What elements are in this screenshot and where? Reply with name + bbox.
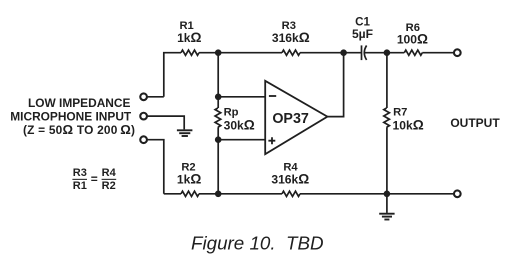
svg-text:OP37: OP37 (272, 111, 309, 127)
label Rp (224, 107, 255, 133)
wire top line left segment (164, 53, 181, 97)
fraction bar right (102, 178, 117, 180)
resistor R6 (404, 50, 422, 55)
svg-text:(Z = 50Ω TO 200 Ω): (Z = 50Ω TO 200 Ω) (23, 122, 135, 137)
wire input terminal 2 to ground (147, 116, 184, 129)
node E (R4/R7/ground/output) (384, 191, 391, 198)
svg-text:Figure 10. TBD: Figure 10. TBD (191, 233, 324, 254)
wire op-amp output to node B (327, 53, 343, 117)
label R4 (271, 161, 309, 186)
label R7 (393, 107, 424, 133)
wire inverting input (218, 96, 265, 98)
label R6 (397, 22, 428, 46)
node noninverting input junction (215, 136, 222, 143)
svg-text:30kΩ: 30kΩ (224, 117, 255, 132)
svg-text:5µF: 5µF (352, 27, 373, 41)
svg-text:R7: R7 (393, 107, 407, 119)
node A (R1/R3 junction) (215, 49, 222, 56)
svg-text:R3: R3 (73, 167, 87, 179)
capacitor C1 (362, 45, 367, 60)
svg-text:1kΩ: 1kΩ (177, 171, 201, 186)
svg-text:LOW IMPEDANCE: LOW IMPEDANCE (28, 96, 130, 110)
resistor Rp (215, 108, 221, 127)
wire noninverting input (218, 139, 265, 141)
wire R3 to C1 (300, 52, 362, 54)
resistor R3 (282, 50, 300, 55)
svg-text:316kΩ: 316kΩ (272, 30, 310, 45)
svg-text:R1: R1 (73, 180, 87, 192)
wire bottom line left segment (164, 193, 181, 195)
resistor R1 (181, 50, 199, 55)
output terminal bottom (454, 190, 461, 197)
output terminal top (454, 49, 461, 56)
resistor R7 (384, 108, 390, 127)
node inverting input junction (215, 94, 222, 101)
op-amp minus pin mark (269, 95, 276, 97)
wire R1 to R3 (199, 52, 282, 54)
wire output node to ground (386, 194, 388, 213)
svg-text:R4: R4 (102, 167, 117, 179)
svg-text:1kΩ: 1kΩ (177, 30, 201, 45)
input terminal 3 (140, 136, 147, 143)
svg-text:10kΩ: 10kΩ (393, 117, 424, 132)
input terminal 2 (140, 113, 147, 120)
op-amp plus pin mark (268, 137, 275, 144)
wire vertical feedback column (217, 53, 219, 194)
svg-text:OUTPUT: OUTPUT (450, 116, 500, 130)
ground (output) (379, 214, 394, 220)
label R2 (177, 161, 201, 186)
wire R6 to output terminal (422, 52, 454, 54)
label R1 (177, 20, 201, 45)
node C (C1 / R6 / R7) (384, 49, 391, 56)
wire C1 to R6 (364, 52, 404, 54)
svg-text:=: = (91, 172, 98, 186)
input terminal 1 (140, 93, 147, 100)
svg-text:316kΩ: 316kΩ (271, 171, 309, 186)
svg-text:100Ω: 100Ω (397, 31, 428, 46)
wire R7 column (386, 53, 388, 194)
label C1 (352, 15, 373, 41)
svg-text:Rp: Rp (224, 107, 239, 119)
wire input terminal 3 down (147, 140, 164, 194)
label microphone input (10, 96, 135, 137)
resistor R4 (282, 191, 300, 196)
wire R4 to output node (300, 193, 454, 195)
resistor R2 (181, 191, 199, 196)
node D (R2/R4 junction) (215, 191, 222, 198)
label R3 (272, 20, 310, 45)
fraction bar left (72, 178, 87, 180)
node B (op-amp output / C1) (340, 49, 347, 56)
ground (microphone input) (177, 130, 193, 136)
op-amp U1 OP37 (265, 81, 327, 154)
wire R2 to R4 (199, 193, 282, 195)
svg-text:R2: R2 (102, 180, 116, 192)
wire input terminal 1 (147, 96, 164, 98)
equation R3/R1 = R4/R2 (73, 167, 117, 192)
